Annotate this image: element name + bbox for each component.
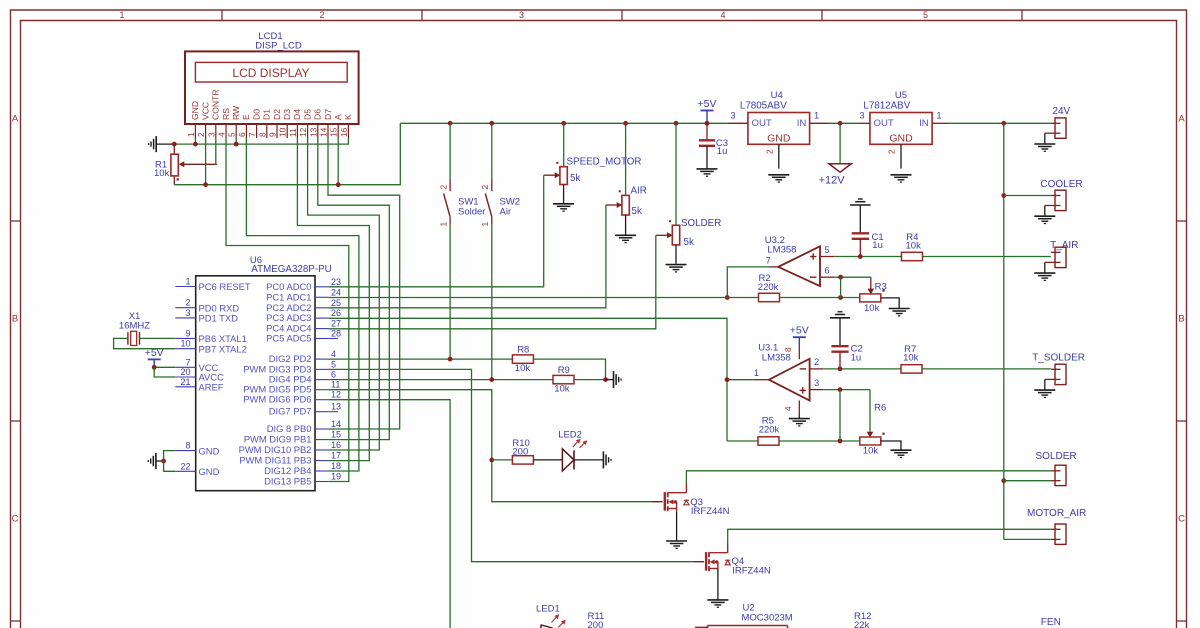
ground (AIR) xyxy=(615,234,636,236)
svg-text:10k: 10k xyxy=(154,168,170,179)
SPEED_MOTOR bottom lead xyxy=(563,185,565,204)
svg-text:3: 3 xyxy=(206,132,216,137)
svg-text:PC3 ADC3: PC3 ADC3 xyxy=(266,312,311,323)
svg-text:3: 3 xyxy=(859,110,864,120)
svg-text:24: 24 xyxy=(331,287,341,297)
U5 pin1 stub xyxy=(932,122,948,124)
transistor Q3 xyxy=(652,483,689,512)
C1 upper lead xyxy=(859,205,861,233)
resistor R5 xyxy=(758,437,779,445)
ground (U6 GND pins) xyxy=(155,453,157,469)
node pin1 junction xyxy=(193,142,198,147)
LED LED2 xyxy=(562,439,587,471)
wire U4 IN to +12V xyxy=(829,122,858,124)
supply +12V symbol xyxy=(829,164,851,173)
U6 right pin numbers xyxy=(331,277,341,482)
C2 upper lead xyxy=(839,318,841,346)
connector T_SOLDER xyxy=(1045,364,1066,390)
ground (R3) xyxy=(889,308,910,310)
svg-text:26: 26 xyxy=(331,308,341,318)
wire LCD pin5 drop xyxy=(235,138,237,144)
node gnd junction xyxy=(161,459,166,464)
svg-text:1: 1 xyxy=(186,132,196,137)
U6 right pin names xyxy=(239,281,312,487)
ground (LED2) xyxy=(602,451,604,468)
capacitor C1 xyxy=(852,233,869,256)
wire LCD pin3 to R1 wiper xyxy=(216,138,217,164)
IC U4 body xyxy=(748,113,810,145)
frame row ticks xyxy=(11,221,1187,621)
svg-text:12: 12 xyxy=(331,390,341,400)
svg-text:OUT: OUT xyxy=(752,118,772,129)
svg-text:1u: 1u xyxy=(717,146,728,157)
svg-text:16: 16 xyxy=(331,440,341,450)
wire pin3 net xyxy=(823,389,870,391)
svg-text:7: 7 xyxy=(185,357,190,367)
svg-text:2: 2 xyxy=(480,185,490,190)
ground (R8/R9) xyxy=(613,371,615,388)
U6 right pin stubs xyxy=(315,287,329,482)
svg-text:4: 4 xyxy=(217,132,227,137)
node R10 junction xyxy=(489,458,494,463)
wire MOTOR_AIR bottom pin xyxy=(1004,538,1051,540)
AIR bottom lead xyxy=(625,215,627,235)
svg-text:R9: R9 xyxy=(558,365,570,376)
U3.2 pin7 stub xyxy=(769,266,778,268)
svg-text:B: B xyxy=(12,314,18,325)
svg-text:PWM DIG6 PD6: PWM DIG6 PD6 xyxy=(243,394,311,405)
svg-text:12: 12 xyxy=(298,127,308,137)
svg-text:A: A xyxy=(1178,114,1185,125)
svg-text:MOC3023M: MOC3023M xyxy=(742,613,793,624)
svg-text:21: 21 xyxy=(180,377,190,387)
svg-text:+12V: +12V xyxy=(819,175,846,187)
svg-text:DIG7 PD7: DIG7 PD7 xyxy=(269,406,312,417)
U6 left pin names xyxy=(199,281,251,477)
U3.2 minus sign xyxy=(810,276,816,278)
svg-text:OUT: OUT xyxy=(874,118,894,129)
potentiometer R3 body xyxy=(860,294,881,302)
R6 marker xyxy=(882,433,884,435)
svg-text:1: 1 xyxy=(936,110,941,120)
svg-text:D1: D1 xyxy=(262,109,272,120)
svg-text:1: 1 xyxy=(439,222,449,227)
wire LCD pin1 drop xyxy=(194,138,196,144)
node SOLDER conn junction xyxy=(1001,478,1006,483)
connector COOLER xyxy=(1045,190,1066,216)
ground (C3) xyxy=(697,168,718,170)
svg-text:22k: 22k xyxy=(854,620,870,628)
ground (T_AIR conn) xyxy=(1034,272,1055,274)
LED1 arrows xyxy=(541,614,566,628)
R3 wiper lead xyxy=(868,277,875,294)
svg-text:IN: IN xyxy=(919,118,929,129)
LCD1 pin names xyxy=(190,89,353,120)
supply +5V (top) xyxy=(698,98,717,123)
wire LCD pin12 to ATmega bus xyxy=(308,138,380,450)
svg-text:R3: R3 xyxy=(875,282,887,293)
svg-text:B: B xyxy=(1178,314,1184,325)
AIR wiper arrow xyxy=(606,202,622,208)
U3.2 pin5 stub xyxy=(820,256,834,258)
svg-text:PWM DIG10 PB2: PWM DIG10 PB2 xyxy=(239,444,312,455)
wire +5V top rail xyxy=(400,122,728,124)
ground (above C1) xyxy=(850,204,870,206)
node R1 top junction xyxy=(172,142,177,147)
svg-text:1: 1 xyxy=(814,110,819,120)
U3.1 pin4 lead xyxy=(798,401,800,416)
potentiometer AIR feed xyxy=(625,123,627,195)
node rail junction x450 xyxy=(448,121,453,126)
svg-text:16: 16 xyxy=(339,127,349,137)
node C1 junction xyxy=(858,254,863,259)
svg-text:D6: D6 xyxy=(313,109,323,120)
svg-text:23: 23 xyxy=(331,277,341,287)
svg-text:DISP_LCD: DISP_LCD xyxy=(255,41,302,52)
wire R7 to T_SOLDER xyxy=(922,368,1051,370)
svg-text:MOTOR_AIR: MOTOR_AIR xyxy=(1027,508,1086,519)
wire LCD pin4 to ATmega bus xyxy=(226,138,349,482)
node SW2/R9 junction xyxy=(489,377,494,382)
R1 marker xyxy=(177,178,179,180)
svg-text:24V: 24V xyxy=(1052,106,1070,117)
wire COOLER xyxy=(1004,195,1051,197)
svg-text:200: 200 xyxy=(512,447,528,458)
switch SW2 xyxy=(485,123,492,379)
svg-text:5k: 5k xyxy=(684,237,694,248)
svg-text:LM358: LM358 xyxy=(767,245,796,256)
U5 pin2 stub xyxy=(900,144,902,168)
transistor Q4 xyxy=(695,543,731,571)
node rail junction x491 xyxy=(489,121,494,126)
wire SPEED_MOTOR wiper to ADC0 xyxy=(329,175,544,287)
svg-text:220k: 220k xyxy=(758,282,779,293)
svg-text:3: 3 xyxy=(185,308,190,318)
wire PD2 row xyxy=(329,358,513,360)
node +5V/C3 junction xyxy=(705,121,710,126)
R9 ground lead xyxy=(606,379,614,381)
wire Q4 drain to MOTOR_AIR xyxy=(728,529,1051,543)
svg-text:D4: D4 xyxy=(292,109,302,120)
svg-text:11: 11 xyxy=(288,128,298,137)
svg-text:5k: 5k xyxy=(570,173,580,184)
node R8/R9 junction xyxy=(603,377,608,382)
svg-text:A: A xyxy=(333,114,343,120)
IC U6 body xyxy=(196,276,315,491)
svg-text:9: 9 xyxy=(185,328,190,338)
R3 right lead to ground xyxy=(881,298,899,308)
svg-text:SOLDER: SOLDER xyxy=(1036,451,1077,462)
svg-text:PB7 XTAL2: PB7 XTAL2 xyxy=(199,343,247,354)
wire GND8/GND22 loop xyxy=(164,451,176,472)
svg-text:2: 2 xyxy=(814,357,819,367)
svg-text:8: 8 xyxy=(185,441,190,451)
SOLDER marker xyxy=(669,220,671,222)
ground (Q3) xyxy=(666,540,687,542)
svg-text:16MHZ: 16MHZ xyxy=(119,321,150,332)
svg-text:7: 7 xyxy=(766,256,771,266)
svg-text:2: 2 xyxy=(196,132,206,137)
node pin6 corner xyxy=(838,275,843,280)
wire LCD pin2 drop xyxy=(205,138,207,185)
node pin3 junction xyxy=(838,387,843,392)
ground (U4) xyxy=(768,174,789,176)
svg-text:T_SOLDER: T_SOLDER xyxy=(1032,353,1085,364)
svg-text:3: 3 xyxy=(519,10,524,20)
node rail junction x563 xyxy=(561,121,566,126)
svg-text:27: 27 xyxy=(331,319,341,329)
resistor R10 xyxy=(512,456,533,464)
wire U5 to 24V rail xyxy=(948,122,1051,124)
U5 pin3 stub xyxy=(857,122,870,124)
ground (R6) xyxy=(891,449,912,451)
svg-text:3: 3 xyxy=(730,110,735,120)
U3.1 pin1 stub xyxy=(753,379,769,381)
wire PD3 to Q4 gate xyxy=(329,369,695,561)
node C2 junction xyxy=(838,367,843,372)
svg-text:LCD DISPLAY: LCD DISPLAY xyxy=(232,66,309,80)
ground (U5) xyxy=(891,174,912,176)
LCD display LCD1 body xyxy=(185,51,359,124)
LCD1 pin numbers xyxy=(186,127,349,137)
svg-text:6: 6 xyxy=(331,370,336,380)
capacitor C3 xyxy=(699,123,715,168)
svg-text:IN: IN xyxy=(797,118,807,129)
svg-text:DIG12 PB4: DIG12 PB4 xyxy=(264,465,311,476)
svg-text:1u: 1u xyxy=(872,240,883,251)
resistor R2 xyxy=(759,293,780,301)
svg-text:6: 6 xyxy=(237,132,247,137)
wire R5 to R6 xyxy=(779,440,860,442)
IC U5 body xyxy=(870,113,932,145)
svg-text:LM358: LM358 xyxy=(762,352,791,363)
wire XTAL1 xyxy=(140,337,176,339)
ground (LCD pin1) xyxy=(155,136,157,152)
node VCC junction xyxy=(152,365,157,370)
wire +5V LCD rail xyxy=(174,123,400,184)
node +12V junction xyxy=(838,121,843,126)
U3.1 minus sign xyxy=(800,368,806,370)
potentiometer SPEED_MOTOR feed xyxy=(563,123,565,166)
svg-text:GND: GND xyxy=(767,133,791,145)
svg-text:10k: 10k xyxy=(906,240,922,251)
svg-text:1: 1 xyxy=(754,368,759,378)
svg-text:+5V: +5V xyxy=(790,325,809,337)
node R5/R6 junction xyxy=(838,439,843,444)
wire +12V stem xyxy=(839,123,841,163)
svg-text:PC0 ADC0: PC0 ADC0 xyxy=(266,281,311,292)
switch SW1 xyxy=(444,123,451,359)
U4 pin2 stub xyxy=(778,144,780,168)
svg-text:VCC: VCC xyxy=(200,102,210,120)
svg-text:+5V: +5V xyxy=(145,347,164,359)
SOLDER wiper arrow xyxy=(656,232,673,238)
svg-text:D7: D7 xyxy=(323,109,333,120)
svg-text:SOLDER: SOLDER xyxy=(681,218,721,229)
svg-text:SPEED_MOTOR: SPEED_MOTOR xyxy=(567,157,642,168)
svg-text:ATMEGA328P-PU: ATMEGA328P-PU xyxy=(251,264,331,275)
svg-text:2: 2 xyxy=(439,185,449,190)
svg-text:PWM DIG9 PB1: PWM DIG9 PB1 xyxy=(244,434,312,445)
IC U2 body (cut) xyxy=(695,626,788,628)
svg-text:22: 22 xyxy=(180,461,190,471)
wire SOLDER wiper to ADC4 xyxy=(329,235,656,328)
AIR marker xyxy=(619,190,621,192)
wire LCD pin6 to ATmega bus xyxy=(246,138,359,471)
svg-text:5: 5 xyxy=(331,359,336,369)
svg-text:IRFZ44N: IRFZ44N xyxy=(691,506,730,517)
ground (24V conn) xyxy=(1034,143,1055,145)
svg-text:AIR: AIR xyxy=(631,186,647,197)
wire R10 left xyxy=(492,459,513,461)
wire ground to R1 top xyxy=(156,143,174,145)
frame column numbers xyxy=(119,10,928,20)
U3.1 pin2 stub xyxy=(810,368,824,370)
ground (Q4) xyxy=(707,599,728,601)
svg-text:10: 10 xyxy=(278,127,288,137)
resistor R8 xyxy=(512,355,533,363)
svg-text:GND: GND xyxy=(190,101,200,120)
wire XTAL2 xyxy=(114,338,176,348)
svg-text:L7805ABV: L7805ABV xyxy=(740,100,787,111)
wire pin2 rail xyxy=(823,368,901,370)
Q4 source wire xyxy=(717,569,719,600)
svg-text:13: 13 xyxy=(331,402,341,412)
svg-text:9: 9 xyxy=(268,132,278,137)
op-amp U3.2 xyxy=(778,246,820,286)
potentiometer R6 body xyxy=(860,437,881,445)
R3 marker xyxy=(882,289,884,291)
svg-text:6: 6 xyxy=(824,266,829,276)
wire pin5 rail left xyxy=(834,256,901,258)
svg-text:15: 15 xyxy=(329,127,339,137)
frame column ticks xyxy=(222,10,1022,21)
svg-text:4: 4 xyxy=(784,406,793,411)
svg-text:10k: 10k xyxy=(903,353,919,364)
svg-text:20: 20 xyxy=(180,367,190,377)
svg-text:LED2: LED2 xyxy=(558,430,582,441)
svg-text:7: 7 xyxy=(247,132,257,137)
connector 24V xyxy=(1045,118,1066,144)
U6 left pin numbers xyxy=(180,277,190,472)
svg-text:CONTR: CONTR xyxy=(211,89,221,120)
svg-text:IRFZ44N: IRFZ44N xyxy=(732,565,771,576)
svg-text:10k: 10k xyxy=(515,363,531,374)
svg-text:10k: 10k xyxy=(863,446,879,457)
wire pin4 tail xyxy=(798,415,800,419)
node rail junction x625 xyxy=(623,121,628,126)
supply +5V (VCC) xyxy=(145,347,164,367)
svg-text:D2: D2 xyxy=(272,109,282,120)
svg-text:5: 5 xyxy=(227,132,237,137)
svg-text:19: 19 xyxy=(331,472,341,482)
svg-text:3: 3 xyxy=(814,378,819,388)
svg-text:PD1 TXD: PD1 TXD xyxy=(199,313,239,324)
wire +5V to VCC xyxy=(154,366,175,368)
svg-text:Solder: Solder xyxy=(458,207,485,218)
resistor R7 xyxy=(901,365,922,373)
svg-text:25: 25 xyxy=(331,298,341,308)
svg-text:LED1: LED1 xyxy=(536,604,560,615)
R1 wiper arrow xyxy=(179,161,217,167)
wire LCD pin15 drop xyxy=(337,138,339,185)
svg-text:A: A xyxy=(12,114,19,125)
U3.2 plus sign xyxy=(810,253,816,259)
LED2 anode wire xyxy=(533,459,562,461)
connector T_AIR xyxy=(1045,247,1066,273)
wire 24V drop xyxy=(1003,123,1005,539)
node rail junction x707 xyxy=(705,121,710,126)
svg-text:28: 28 xyxy=(331,329,341,339)
U3.1 plus sign xyxy=(800,387,806,393)
wire U3.2 output xyxy=(727,267,769,298)
Q3 source wire xyxy=(676,512,678,541)
svg-text:10k: 10k xyxy=(864,303,880,314)
node pin15 junction xyxy=(336,182,341,187)
svg-text:1: 1 xyxy=(119,10,124,20)
node R2/R3 junction xyxy=(838,295,843,300)
wire +5V to AVCC xyxy=(154,367,175,377)
connector MOTOR_AIR xyxy=(1051,524,1066,544)
wire pin3 to R5 rail xyxy=(839,390,841,441)
U6 pin13 PD7 open stub xyxy=(329,411,338,413)
svg-text:2: 2 xyxy=(765,149,775,154)
wire LCD pin14 to ATmega bus xyxy=(328,138,400,429)
svg-text:E: E xyxy=(241,114,251,120)
svg-text:PC1 ADC1: PC1 ADC1 xyxy=(266,291,311,302)
wire U3.1 out xyxy=(727,379,753,381)
node U3.1 out junction xyxy=(725,377,730,382)
svg-text:13: 13 xyxy=(308,127,318,137)
LCD1 pin stubs xyxy=(195,124,348,138)
U3.2 pin6 stub xyxy=(820,276,834,278)
potentiometer SOLDER feed xyxy=(675,123,677,225)
potentiometer SPEED_MOTOR body xyxy=(560,167,567,185)
wire pin6 net xyxy=(834,276,871,278)
wire R2 to R3 xyxy=(780,297,860,299)
wire PD6 row to bottom xyxy=(329,400,451,628)
wire SOLDER bottom pin xyxy=(1004,480,1051,482)
ground (above C2) xyxy=(830,317,850,319)
ground (SPEED_MOTOR) xyxy=(553,203,574,205)
U6 pin28 PC5 open stub xyxy=(329,338,338,340)
wire R9 right xyxy=(573,379,605,381)
ground (COOLER conn) xyxy=(1034,215,1055,217)
R1 bottom lead xyxy=(173,176,175,185)
potentiometer AIR body xyxy=(622,195,629,215)
wire ADC1 rail xyxy=(329,297,759,299)
svg-text:PC5 ADC5: PC5 ADC5 xyxy=(266,333,311,344)
svg-text:+5V: +5V xyxy=(698,98,717,110)
wire PD5 row xyxy=(329,390,652,502)
svg-text:DIG13 PB5: DIG13 PB5 xyxy=(264,476,311,487)
node pin2 junction xyxy=(203,182,208,187)
svg-text:GND: GND xyxy=(199,466,220,477)
capacitor C2 xyxy=(831,346,848,369)
svg-text:17: 17 xyxy=(331,451,341,461)
svg-text:10k: 10k xyxy=(554,384,570,395)
svg-text:AREF: AREF xyxy=(199,382,224,393)
svg-text:18: 18 xyxy=(331,461,341,471)
wire R4 to T_AIR xyxy=(923,256,1051,258)
svg-text:2: 2 xyxy=(319,10,324,20)
svg-text:1: 1 xyxy=(185,277,190,287)
op-amp U3.1 xyxy=(769,359,810,401)
SOLDER bottom lead xyxy=(675,245,677,264)
U3.1 pin8 lead xyxy=(798,347,800,359)
svg-text:PWM DIG11 PB3: PWM DIG11 PB3 xyxy=(239,455,311,466)
wire pin6 drop xyxy=(840,277,842,297)
